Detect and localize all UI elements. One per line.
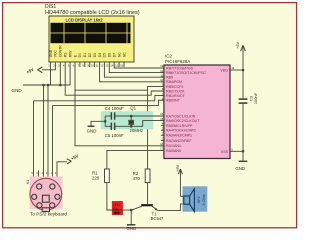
svg-text:RB7/T1OSI/PGD: RB7/T1OSI/PGD	[166, 66, 194, 70]
svg-text:RA6/OSC2/CLKOUT: RA6/OSC2/CLKOUT	[166, 119, 200, 123]
svg-text:GND: GND	[49, 49, 53, 57]
svg-text:BC547: BC547	[151, 216, 164, 221]
svg-text:GN: GN	[113, 207, 119, 211]
svg-text:RA2/AN2/VREF: RA2/AN2/VREF	[166, 139, 192, 143]
svg-text:Q1: Q1	[130, 106, 136, 111]
svg-text:20MHz: 20MHz	[130, 128, 144, 133]
svg-text:VSS: VSS	[221, 150, 229, 154]
svg-text:D1: D1	[83, 53, 87, 57]
svg-text:D7: D7	[113, 53, 117, 57]
svg-text:13: 13	[105, 63, 109, 67]
svg-text:GND: GND	[127, 226, 137, 231]
svg-text:D3: D3	[93, 53, 97, 57]
svg-text:D0: D0	[78, 53, 82, 57]
svg-text:14: 14	[110, 63, 114, 67]
svg-text:RA1/AN1: RA1/AN1	[166, 144, 181, 148]
svg-text:12: 12	[100, 63, 104, 67]
svg-text:17: 17	[160, 147, 164, 151]
svg-text:RB5: RB5	[166, 76, 173, 80]
svg-text:LCD DISPLAY 16x2: LCD DISPLAY 16x2	[65, 17, 103, 22]
svg-text:10: 10	[91, 63, 95, 67]
svg-text:15: 15	[115, 63, 119, 67]
svg-text:RS: RS	[64, 52, 68, 57]
svg-text:RB4/PGM: RB4/PGM	[166, 80, 182, 84]
svg-text:D6: D6	[108, 53, 112, 57]
svg-text:RA7/OSC1/CLKIN: RA7/OSC1/CLKIN	[166, 114, 196, 118]
svg-text:+5V: +5V	[235, 41, 240, 49]
svg-text:+5V: +5V	[175, 164, 180, 172]
svg-text:D4: D4	[98, 53, 102, 57]
svg-text:RB3/CCP1: RB3/CCP1	[166, 85, 184, 89]
svg-text:RA4/TOCKI/CMP2: RA4/TOCKI/CMP2	[166, 129, 196, 133]
svg-text:D2: D2	[88, 53, 92, 57]
svg-text:16: 16	[160, 112, 164, 116]
svg-text:RA0/AN0: RA0/AN0	[166, 149, 181, 153]
svg-text:16: 16	[120, 63, 124, 67]
svg-text:NC: NC	[122, 52, 126, 57]
svg-text:470: 470	[133, 176, 141, 181]
svg-text:13: 13	[160, 64, 164, 68]
svg-text:X1: X1	[25, 179, 30, 185]
svg-text:15: 15	[160, 117, 164, 121]
svg-text:100nF: 100nF	[253, 92, 258, 104]
svg-text:R/W: R/W	[68, 50, 72, 57]
svg-text:VCC: VCC	[54, 50, 58, 58]
svg-text:8 Ohm: 8 Ohm	[202, 194, 206, 205]
svg-text:C5 100nF: C5 100nF	[105, 133, 124, 138]
svg-text:GND: GND	[87, 128, 97, 133]
svg-text:SP1: SP1	[197, 196, 201, 203]
svg-text:GND: GND	[235, 166, 245, 171]
svg-text:NC: NC	[117, 52, 121, 57]
svg-text:VDD: VDD	[220, 68, 228, 72]
svg-text:To PS/2 keyboard: To PS/2 keyboard	[30, 212, 67, 217]
svg-text:RA3/AN3/CMP1: RA3/AN3/CMP1	[166, 134, 192, 138]
svg-text:C4 100nF: C4 100nF	[105, 106, 124, 111]
svg-text:RB0/INT: RB0/INT	[166, 99, 181, 103]
svg-text:RB1/RX/DT: RB1/RX/DT	[166, 94, 186, 98]
svg-text:D5: D5	[103, 53, 107, 57]
svg-text:PIC16F628A: PIC16F628A	[165, 59, 190, 64]
svg-text:11: 11	[160, 73, 163, 77]
svg-text:LED: LED	[113, 203, 120, 207]
svg-text:HD44780 compatible LCD (2x16 l: HD44780 compatible LCD (2x16 lines)	[45, 10, 140, 16]
svg-text:18: 18	[160, 142, 164, 146]
svg-text:CONTR: CONTR	[59, 45, 63, 58]
svg-text:GND: GND	[12, 88, 23, 93]
svg-text:11: 11	[96, 63, 99, 67]
svg-text:RA5/MCLR/VPP: RA5/MCLR/VPP	[166, 124, 193, 128]
svg-text:10: 10	[160, 78, 164, 82]
svg-text:RB2/TX/CK: RB2/TX/CK	[166, 89, 185, 93]
svg-text:220: 220	[92, 176, 100, 181]
svg-text:12: 12	[160, 69, 164, 73]
svg-text:RB6/T1OSO/T1CKI/PGC: RB6/T1OSO/T1CKI/PGC	[166, 71, 207, 75]
